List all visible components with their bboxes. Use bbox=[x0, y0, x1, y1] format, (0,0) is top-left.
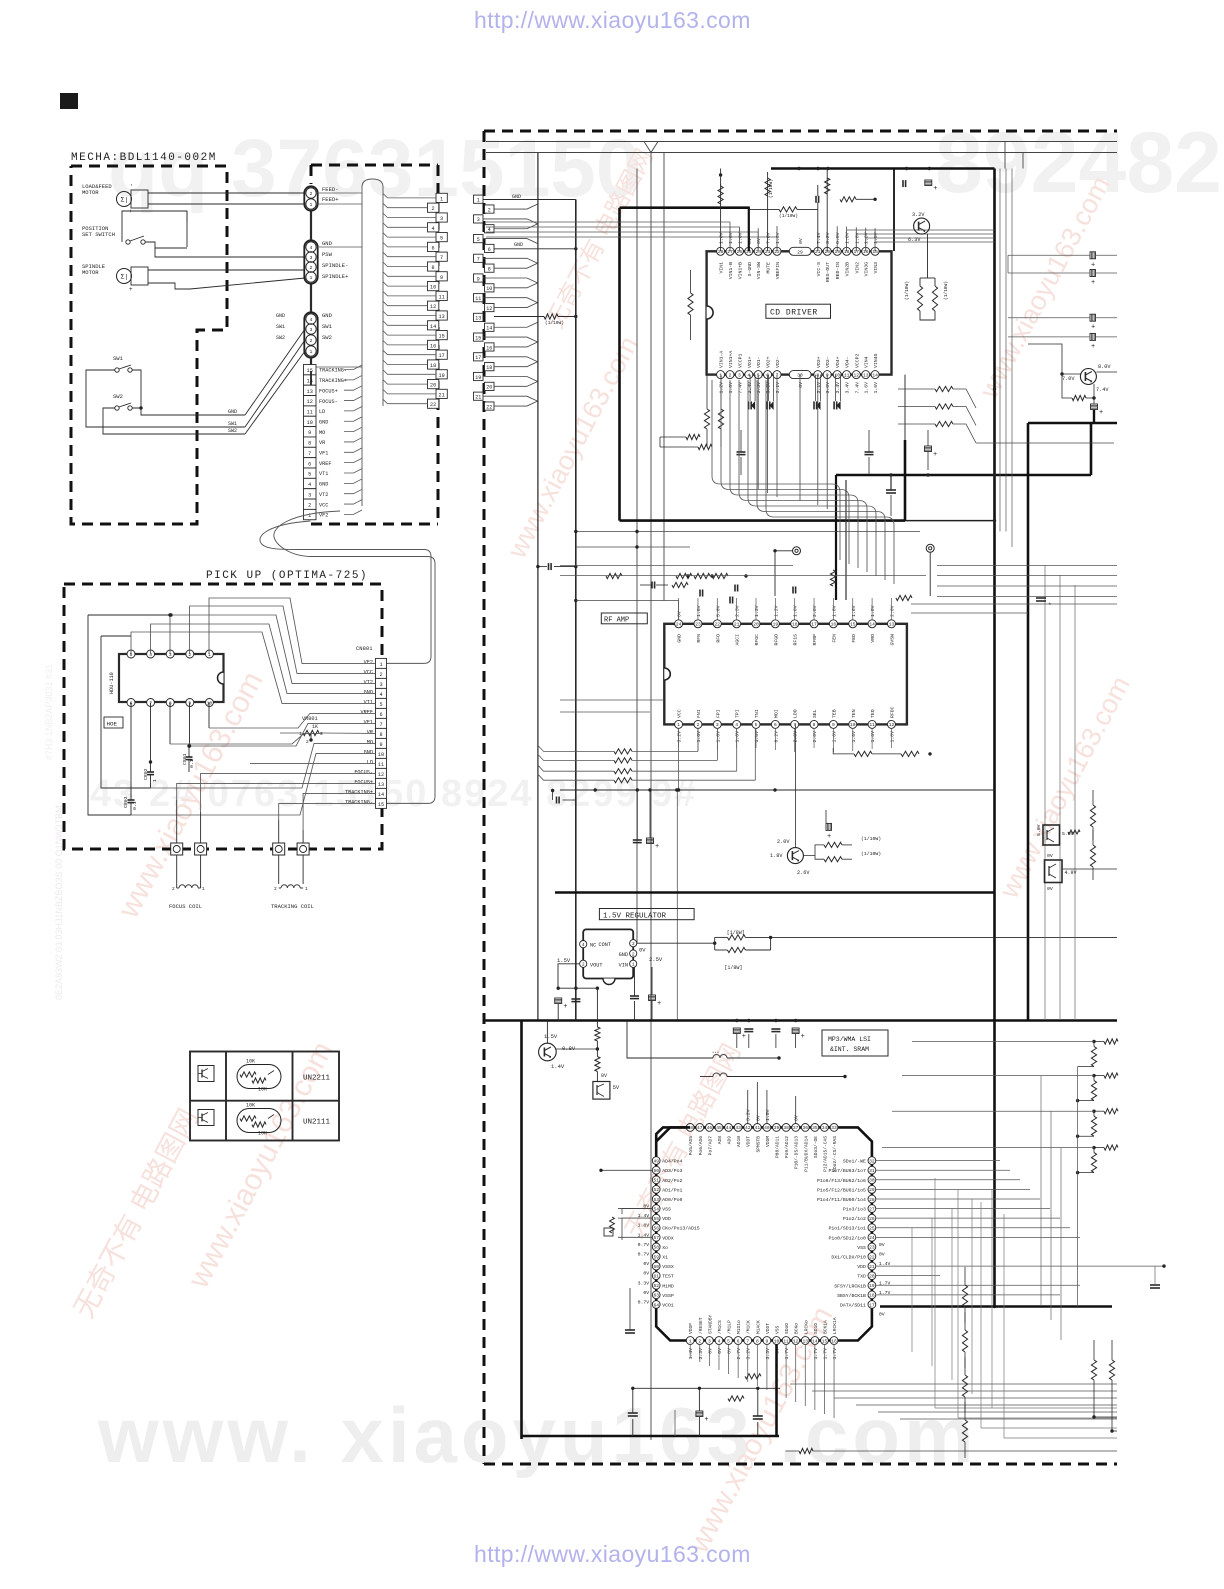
svg-text:MO: MO bbox=[319, 430, 325, 436]
svg-text:[1/8W]: [1/8W] bbox=[724, 965, 742, 971]
wire vcc pin1 to bus bbox=[678, 728, 680, 790]
svg-text:6: 6 bbox=[737, 1338, 740, 1344]
svg-text:0V: 0V bbox=[727, 1348, 733, 1354]
svg-text:2: 2 bbox=[697, 722, 700, 728]
svg-text:0V: 0V bbox=[1047, 886, 1053, 892]
svg-text:PSW: PSW bbox=[322, 251, 333, 258]
svg-text:+: + bbox=[1099, 409, 1103, 417]
wire vertical x637 bbox=[636, 169, 638, 944]
svg-text:VCC: VCC bbox=[364, 670, 373, 676]
svg-text:8: 8 bbox=[756, 1338, 759, 1344]
svg-text:7.0V: 7.0V bbox=[766, 232, 772, 244]
wire s-curve to pickup bbox=[310, 371, 312, 385]
svg-text:FOCUS-: FOCUS- bbox=[354, 770, 373, 776]
svg-text:7: 7 bbox=[440, 255, 443, 261]
svg-text:SDo3/-OE: SDo3/-OE bbox=[813, 1136, 819, 1158]
svg-text:1: 1 bbox=[440, 196, 443, 202]
svg-text:0.1: 0.1 bbox=[189, 759, 195, 768]
svg-text:13: 13 bbox=[378, 782, 384, 788]
svg-text:/M1CS: /M1CS bbox=[717, 1320, 723, 1334]
svg-text:(1/10W): (1/10W) bbox=[943, 281, 949, 300]
svg-text:+: + bbox=[1091, 343, 1095, 351]
svg-text:HDU-110: HDU-110 bbox=[109, 672, 115, 694]
svg-text:FOCUS+: FOCUS+ bbox=[354, 780, 373, 786]
svg-text:0V: 0V bbox=[755, 1115, 761, 1121]
svg-text:FPI: FPI bbox=[715, 709, 721, 718]
svg-text:10: 10 bbox=[207, 700, 213, 706]
svg-text:27: 27 bbox=[869, 1206, 875, 1212]
svg-text:VCO1: VCO1 bbox=[662, 1302, 674, 1308]
svg-text:TRACKING+: TRACKING+ bbox=[345, 790, 373, 796]
svg-text:18: 18 bbox=[792, 622, 798, 628]
wire right column stubs bbox=[1008, 247, 1014, 255]
svg-text:Po6/AD6: Po6/AD6 bbox=[698, 1136, 704, 1156]
svg-text:16: 16 bbox=[486, 345, 492, 351]
svg-text:+: + bbox=[933, 185, 937, 193]
caps right of lsi top bbox=[733, 1028, 740, 1034]
svg-text:AD10: AD10 bbox=[736, 1136, 742, 1147]
svg-text:(1/10W): (1/10W) bbox=[861, 851, 881, 857]
ecap below 7.4V bbox=[1091, 404, 1098, 410]
svg-text:VR: VR bbox=[367, 730, 373, 736]
svg-text:12: 12 bbox=[430, 304, 436, 310]
svg-text:TRACKING+: TRACKING+ bbox=[319, 378, 347, 384]
svg-text:VIN4G: VIN4G bbox=[873, 353, 879, 368]
resistor R above cd pin28 bbox=[720, 184, 722, 251]
svg-text:***: *** bbox=[712, 1051, 719, 1056]
svg-text:VIN1-A: VIN1-A bbox=[719, 351, 725, 368]
IC CD DRIVER bottom pins bbox=[717, 371, 725, 379]
wire psw bbox=[186, 222, 188, 247]
svg-text:1: 1 bbox=[202, 886, 205, 892]
svg-text:+: + bbox=[742, 1033, 746, 1041]
svg-text:12: 12 bbox=[486, 306, 492, 312]
svg-text:SBSY/BCK1B: SBSY/BCK1B bbox=[837, 1293, 866, 1299]
svg-text:3: 3 bbox=[440, 216, 443, 222]
svg-text:3.3V: 3.3V bbox=[698, 1348, 704, 1360]
svg-text:6.3V: 6.3V bbox=[908, 237, 921, 243]
svg-text:35: 35 bbox=[812, 1125, 818, 1131]
svg-text:3.3V: 3.3V bbox=[765, 1348, 771, 1360]
svg-text:18: 18 bbox=[869, 1293, 875, 1299]
svg-text:UN2111: UN2111 bbox=[303, 1119, 331, 1127]
svg-text:20: 20 bbox=[869, 1273, 875, 1279]
svg-text:Po9/AD12: Po9/AD12 bbox=[784, 1136, 790, 1158]
svg-text:5: 5 bbox=[477, 237, 480, 243]
testpoint TP2 bbox=[926, 544, 934, 552]
svg-text:S-GND: S-GND bbox=[747, 262, 753, 277]
svg-text:GND: GND bbox=[364, 690, 373, 696]
svg-text:0V: 0V bbox=[677, 611, 683, 617]
wire heavy right v2 bbox=[1090, 423, 1093, 475]
svg-text:GND: GND bbox=[364, 750, 373, 756]
svg-text:14: 14 bbox=[486, 326, 492, 332]
svg-text:SDoO: SDoO bbox=[784, 1323, 790, 1334]
svg-text:1.5V: 1.5V bbox=[765, 1109, 771, 1121]
svg-text:+: + bbox=[1091, 279, 1095, 287]
wire heavy cd right bbox=[904, 440, 907, 521]
wire ladder3 pin1 gnd bbox=[483, 199, 576, 201]
svg-text:VO2+: VO2+ bbox=[766, 356, 772, 368]
svg-text:44: 44 bbox=[726, 1125, 732, 1131]
wire lsi vss heavy bbox=[775, 1344, 778, 1436]
svg-text:9: 9 bbox=[477, 276, 480, 282]
svg-text:23: 23 bbox=[869, 1245, 875, 1251]
transistor Q 7.0V right bbox=[1080, 369, 1096, 385]
svg-text:0V: 0V bbox=[756, 238, 762, 244]
svg-text:1.7V: 1.7V bbox=[784, 1348, 790, 1360]
svg-text:GND: GND bbox=[322, 240, 333, 247]
svg-text:2: 2 bbox=[488, 207, 491, 213]
wire resistor bottom y1451 bbox=[786, 1450, 799, 1452]
svg-text:VT2: VT2 bbox=[364, 680, 373, 686]
svg-text:0V: 0V bbox=[798, 238, 804, 244]
svg-text:1: 1 bbox=[305, 886, 308, 892]
svg-text:2.3V: 2.3V bbox=[735, 605, 741, 617]
svg-text:SPINDLE-: SPINDLE- bbox=[322, 262, 348, 269]
svg-text:(1/10W): (1/10W) bbox=[779, 213, 798, 219]
svg-text:1.5V REGULATOR: 1.5V REGULATOR bbox=[603, 913, 667, 921]
svg-text:0.7V: 0.7V bbox=[638, 1252, 650, 1258]
svg-text:P1o6/F13/BU62/1o6: P1o6/F13/BU62/1o6 bbox=[817, 1178, 866, 1184]
svg-text:1.6V: 1.6V bbox=[845, 232, 851, 244]
svg-text:UN2211: UN2211 bbox=[303, 1075, 331, 1083]
svg-text:VIN2: VIN2 bbox=[854, 262, 860, 274]
svg-text:PICK UP (OPTIMA-725): PICK UP (OPTIMA-725) bbox=[206, 570, 368, 582]
transistor Q 3.2V bbox=[914, 218, 930, 234]
caps rf bottom left bbox=[633, 839, 642, 841]
svg-text:2.6V: 2.6V bbox=[812, 605, 818, 617]
svg-text:62: 62 bbox=[653, 1283, 659, 1289]
svg-text:+: + bbox=[657, 1000, 661, 1008]
svg-text:2.5V: 2.5V bbox=[649, 956, 663, 963]
svg-text:3: 3 bbox=[320, 731, 323, 737]
wire gnd pin24 bbox=[574, 599, 577, 602]
svg-text:45: 45 bbox=[716, 1125, 722, 1131]
svg-text:14: 14 bbox=[378, 792, 384, 798]
svg-text:20: 20 bbox=[486, 385, 492, 391]
svg-text:VIN1: VIN1 bbox=[719, 262, 725, 274]
svg-text:15: 15 bbox=[378, 802, 384, 808]
resistor network UN2111 bbox=[237, 1109, 281, 1133]
components above rf amp bbox=[651, 582, 653, 589]
svg-text:1.4V: 1.4V bbox=[688, 1348, 694, 1360]
svg-text:1: 1 bbox=[310, 275, 313, 281]
svg-text:7.4V: 7.4V bbox=[737, 382, 743, 394]
svg-text:0V: 0V bbox=[601, 1073, 607, 1079]
svg-text:VDD: VDD bbox=[662, 1216, 671, 1222]
wires verticals x1000 down bbox=[999, 169, 1001, 532]
svg-text:2.0V: 2.0V bbox=[889, 605, 895, 617]
svg-text:17: 17 bbox=[438, 353, 444, 359]
svg-text:GND: GND bbox=[619, 952, 628, 958]
wire vertical bus x538 bbox=[537, 153, 539, 1021]
svg-text:0.7V: 0.7V bbox=[638, 1299, 650, 1305]
svg-text:7.4V: 7.4V bbox=[854, 382, 860, 394]
ecap rf bbox=[826, 823, 832, 830]
wire ladder3 pin6 gnd bbox=[494, 248, 576, 250]
svg-text:1.6V: 1.6V bbox=[775, 232, 781, 244]
svg-text:14: 14 bbox=[430, 324, 436, 330]
wires mid right y600 band bbox=[911, 603, 1117, 605]
wire heavy right l bbox=[1028, 422, 1117, 425]
svg-text:4: 4 bbox=[718, 1338, 721, 1344]
svg-text:MECHA:BDL1140-002M: MECHA:BDL1140-002M bbox=[71, 152, 217, 164]
svg-text:0V: 0V bbox=[879, 1311, 885, 1317]
svg-text:59: 59 bbox=[653, 1254, 659, 1260]
svg-text:VIN4: VIN4 bbox=[864, 356, 870, 368]
wire vdd right bbox=[876, 1265, 1164, 1267]
svg-text:TNI: TNI bbox=[754, 709, 760, 718]
wire heavy sgnd bbox=[748, 208, 750, 252]
svg-text:M1ACK: M1ACK bbox=[755, 1320, 761, 1334]
svg-text:2: 2 bbox=[582, 962, 585, 968]
svg-text:6.6V: 6.6V bbox=[835, 232, 841, 244]
svg-text:11: 11 bbox=[783, 1338, 789, 1344]
svg-text:/M1LP: /M1LP bbox=[727, 1320, 733, 1334]
wire heavy right vertical bbox=[993, 169, 996, 1307]
svg-text:9: 9 bbox=[766, 1338, 769, 1344]
svg-text:1.7V: 1.7V bbox=[822, 1348, 828, 1360]
svg-text:15: 15 bbox=[475, 335, 481, 341]
svg-text:GND: GND bbox=[228, 409, 237, 415]
svg-text:MO: MO bbox=[367, 740, 373, 746]
svg-text:16: 16 bbox=[430, 343, 436, 349]
svg-text:10: 10 bbox=[774, 1338, 780, 1344]
svg-text:53: 53 bbox=[653, 1197, 659, 1203]
svg-text:4: 4 bbox=[308, 482, 311, 488]
svg-text:HOE: HOE bbox=[107, 721, 118, 728]
black square marker bbox=[60, 93, 78, 109]
svg-text:30: 30 bbox=[869, 1178, 875, 1184]
svg-text:SD1O: SD1O bbox=[813, 1323, 819, 1334]
wires lsi top entries bbox=[747, 1090, 749, 1124]
svg-text:49: 49 bbox=[653, 1158, 659, 1164]
svg-text:1.6V: 1.6V bbox=[851, 731, 857, 743]
svg-text:1.2V: 1.2V bbox=[719, 382, 725, 394]
svg-text:3.6V: 3.6V bbox=[825, 382, 831, 394]
wire heavy lsi left bbox=[520, 1021, 523, 1440]
svg-text:54: 54 bbox=[653, 1206, 659, 1212]
resistors rf q bbox=[824, 842, 842, 847]
svg-text:VT2: VT2 bbox=[319, 492, 328, 498]
svg-text:FOCUS-: FOCUS- bbox=[319, 399, 338, 405]
svg-text:3.2V: 3.2V bbox=[677, 731, 683, 743]
connector CN sw bbox=[304, 312, 317, 357]
svg-text:0V: 0V bbox=[643, 1261, 649, 1267]
svg-text:P10/-DS/AD13: P10/-DS/AD13 bbox=[794, 1136, 800, 1169]
svg-text:18: 18 bbox=[430, 363, 436, 369]
boxed transistor 4.9V bbox=[1045, 860, 1063, 883]
svg-text:8: 8 bbox=[488, 266, 491, 272]
svg-text:22: 22 bbox=[486, 404, 492, 410]
resistor trio right of cd bbox=[935, 386, 953, 391]
svg-text:0V: 0V bbox=[1047, 853, 1053, 859]
wire connector spine bbox=[310, 210, 312, 240]
wire heavy cd bottom bbox=[620, 519, 906, 522]
svg-text:BCKo: BCKo bbox=[794, 1323, 800, 1334]
svg-text:VIN1-B: VIN1-B bbox=[728, 262, 734, 279]
IC regulator body bbox=[583, 929, 633, 978]
wires cd top pins up bbox=[729, 227, 731, 251]
svg-text:BCK1A: BCK1A bbox=[822, 1320, 828, 1334]
svg-text:FOCUS COIL: FOCUS COIL bbox=[169, 903, 202, 910]
IC MP3 LSI body bbox=[656, 1127, 872, 1340]
svg-text:1: 1 bbox=[310, 349, 313, 355]
svg-text:VO2-: VO2- bbox=[775, 356, 781, 368]
svg-text:RFDC: RFDC bbox=[889, 706, 895, 718]
svg-text:Po5/AD5: Po5/AD5 bbox=[688, 1136, 694, 1156]
capacitor under cd 2 bbox=[865, 451, 874, 453]
wire ladder3 pin13 resistor bbox=[494, 316, 544, 318]
svg-text:GND: GND bbox=[276, 313, 285, 319]
resistor R horizontal 1/10w bbox=[779, 207, 797, 212]
svg-text:22: 22 bbox=[430, 402, 436, 408]
svg-text:7: 7 bbox=[793, 722, 796, 728]
svg-text:VT1: VT1 bbox=[364, 700, 373, 706]
svg-text:VO1-: VO1- bbox=[756, 356, 762, 368]
svg-text:VCC: VCC bbox=[319, 502, 328, 508]
svg-text:P12/AD15/-CAS: P12/AD15/-CAS bbox=[822, 1136, 828, 1172]
wire tp2 bbox=[929, 552, 931, 596]
svg-text:AD3/Po3: AD3/Po3 bbox=[662, 1168, 682, 1174]
svg-text:7: 7 bbox=[477, 257, 480, 263]
ladder CN22 right bbox=[474, 195, 484, 203]
wire heavy v894 bbox=[893, 169, 895, 252]
svg-text:13: 13 bbox=[889, 622, 895, 628]
svg-text:3: 3 bbox=[310, 255, 313, 261]
svg-text:10K: 10K bbox=[258, 1131, 267, 1137]
ferrite beads bbox=[713, 1055, 720, 1058]
wire top horizontals inside big box bbox=[486, 152, 1117, 154]
svg-text:/M1CK: /M1CK bbox=[746, 1320, 752, 1334]
wire band y547 bbox=[576, 546, 690, 548]
svg-text:13: 13 bbox=[803, 1338, 809, 1344]
svg-text:1.6V: 1.6V bbox=[696, 731, 702, 743]
svg-text:11: 11 bbox=[475, 296, 481, 302]
svg-text:SW1: SW1 bbox=[322, 323, 333, 330]
svg-text:FNI: FNI bbox=[696, 709, 702, 718]
svg-text:1.2V: 1.2V bbox=[773, 605, 779, 617]
capacitor above cd bbox=[815, 196, 817, 203]
svg-text:GND: GND bbox=[514, 242, 523, 248]
svg-text:LD: LD bbox=[319, 409, 325, 415]
svg-text:REG-OUT: REG-OUT bbox=[825, 262, 831, 282]
svg-text:VIN2B: VIN2B bbox=[845, 262, 851, 277]
svg-text:1.6V: 1.6V bbox=[728, 232, 734, 244]
svg-text:VIN-SW: VIN-SW bbox=[756, 262, 762, 279]
svg-text:MOTOR: MOTOR bbox=[82, 269, 99, 276]
wire heavy top bus bbox=[771, 167, 995, 170]
svg-text:19: 19 bbox=[438, 373, 444, 379]
svg-text:0.1: 0.1 bbox=[132, 801, 138, 810]
svg-text:2.6V: 2.6V bbox=[797, 870, 810, 876]
svg-text:1.6V: 1.6V bbox=[715, 731, 721, 743]
svg-text:': ' bbox=[130, 184, 133, 190]
svg-text:58: 58 bbox=[653, 1245, 659, 1251]
svg-text:22: 22 bbox=[715, 622, 721, 628]
svg-text:3.1V: 3.1V bbox=[775, 382, 781, 394]
label 1.5V REGULATOR bbox=[599, 909, 694, 920]
IC RF AMP body bbox=[664, 624, 907, 725]
svg-text:+: + bbox=[1091, 324, 1095, 332]
svg-text:10: 10 bbox=[850, 722, 856, 728]
svg-text:RFGC: RFGC bbox=[754, 634, 760, 646]
wires pads up bbox=[176, 800, 178, 843]
svg-text:6: 6 bbox=[488, 247, 491, 253]
svg-text:13: 13 bbox=[475, 316, 481, 322]
svg-text:0V: 0V bbox=[879, 1252, 885, 1258]
svg-text:FEED-: FEED- bbox=[322, 186, 339, 193]
svg-text:&INT. SRAM: &INT. SRAM bbox=[830, 1046, 869, 1053]
svg-text:[1/8W]: [1/8W] bbox=[727, 930, 745, 936]
svg-text:DATA/SD11: DATA/SD11 bbox=[840, 1302, 866, 1308]
svg-text:34: 34 bbox=[822, 1125, 828, 1131]
svg-text:0V: 0V bbox=[643, 1271, 649, 1277]
svg-text:0V: 0V bbox=[639, 947, 646, 954]
svg-text:22: 22 bbox=[869, 1254, 875, 1260]
svg-text:5: 5 bbox=[727, 1338, 730, 1344]
wire tp1 bbox=[775, 550, 793, 552]
svg-text:6: 6 bbox=[379, 712, 382, 718]
svg-text:1: 1 bbox=[689, 1338, 692, 1344]
svg-text:SW2: SW2 bbox=[113, 393, 123, 400]
svg-text:46: 46 bbox=[707, 1125, 713, 1131]
svg-text:3: 3 bbox=[477, 217, 480, 223]
svg-text:11: 11 bbox=[378, 762, 384, 768]
svg-text:#7H3 1NB2AP3031 #31: #7H3 1NB2AP3031 #31 bbox=[44, 664, 54, 760]
svg-text:10: 10 bbox=[430, 285, 436, 291]
connector CN spindle bbox=[304, 240, 317, 283]
caps on lsi bottom rail bbox=[632, 1388, 634, 1413]
svg-text:3: 3 bbox=[308, 492, 311, 498]
svg-text:1.6V: 1.6V bbox=[851, 605, 857, 617]
svg-text:2: 2 bbox=[379, 672, 382, 678]
svg-text:+: + bbox=[801, 1033, 805, 1041]
svg-text:3.3V: 3.3V bbox=[638, 1280, 650, 1286]
boxed transistor 5.0V bbox=[1043, 825, 1060, 845]
wire heavy y475 bbox=[836, 474, 1091, 477]
IC CD DRIVER top pins bbox=[717, 247, 725, 255]
capacitor top right cd bbox=[902, 180, 904, 187]
svg-text:20: 20 bbox=[753, 622, 759, 628]
svg-text:VO4+: VO4+ bbox=[835, 356, 841, 368]
resistors rf left bbox=[614, 749, 632, 754]
svg-text:38: 38 bbox=[783, 1125, 789, 1131]
regulator pins bbox=[580, 941, 587, 948]
svg-text:7.4V: 7.4V bbox=[816, 232, 822, 244]
svg-text:25: 25 bbox=[869, 1226, 875, 1232]
svg-text:AD4/Po4: AD4/Po4 bbox=[662, 1159, 682, 1165]
svg-text:(1/10W): (1/10W) bbox=[861, 836, 881, 842]
caps below lsi left bbox=[625, 1329, 635, 1331]
wires sw to connector bbox=[245, 329, 305, 415]
resistor h above cd 2 bbox=[840, 197, 856, 202]
svg-text:VO4-: VO4- bbox=[845, 356, 851, 368]
svg-text:7: 7 bbox=[746, 1338, 749, 1344]
svg-text:23: 23 bbox=[695, 622, 701, 628]
svg-text:0V: 0V bbox=[643, 1290, 649, 1296]
svg-text:AD1/Po1: AD1/Po1 bbox=[662, 1187, 682, 1193]
svg-text:VCCP2: VCCP2 bbox=[854, 353, 860, 368]
svg-text:3.4V: 3.4V bbox=[845, 382, 851, 394]
label MP3/WMA LSI bbox=[822, 1030, 888, 1056]
svg-text:1.6V: 1.6V bbox=[831, 605, 837, 617]
cap right lsi bbox=[1150, 1284, 1160, 1286]
svg-text:Xo: Xo bbox=[662, 1245, 668, 1251]
svg-text:VR801: VR801 bbox=[302, 716, 318, 722]
wire tracking labels to cable bbox=[344, 365, 362, 369]
